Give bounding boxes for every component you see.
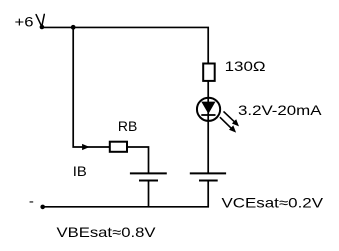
svg-text:+6: +6 [15,13,34,29]
svg-text:VCEsat≈0.2V: VCEsat≈0.2V [222,195,324,211]
svg-text:3.2V-20mA: 3.2V-20mA [238,102,322,118]
svg-text:IB: IB [73,163,87,179]
svg-text:VBEsat≈0.8V: VBEsat≈0.8V [57,224,157,240]
svg-text:RB: RB [118,118,137,134]
svg-text:-: - [29,193,34,209]
svg-text:130Ω: 130Ω [225,58,266,74]
